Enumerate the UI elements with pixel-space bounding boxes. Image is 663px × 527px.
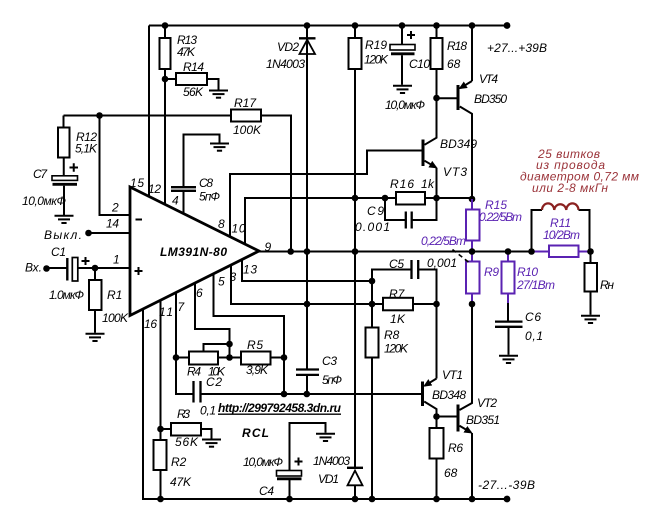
node rail/VD2 (304, 22, 311, 29)
wire R10 to C6 (507, 303, 509, 321)
svg-text:15: 15 (130, 176, 144, 190)
wire R5 right lead (271, 357, 285, 359)
link underline (218, 413, 341, 415)
resistor R3 (171, 423, 201, 436)
transistor VT2 collector (460, 304, 473, 410)
wire VT2 emitter to rail (471, 433, 473, 499)
svg-text:VT1: VT1 (442, 368, 463, 382)
svg-text:R14: R14 (183, 60, 204, 74)
wire R14 right lead to ground (207, 79, 219, 90)
node rail bottom/C4 (286, 496, 293, 503)
node junction R16 right/C9/VT3 emitter (433, 195, 440, 202)
wire pin 5 path (214, 274, 285, 394)
capacitor C7 (52, 176, 78, 185)
resistor R5 (241, 352, 271, 365)
svg-text:11: 11 (159, 305, 173, 319)
wire VD2 vertical from rail down to C3 (306, 26, 308, 370)
wire C10 bottom to ground (401, 55, 403, 85)
node junction pin13/C5/R7 (369, 278, 376, 285)
wire R8 bottom to rail (371, 358, 373, 500)
svg-text:R19: R19 (365, 38, 387, 52)
svg-text:47K: 47K (177, 45, 196, 59)
wire R19 bottom long vertical down to VD1 (354, 69, 356, 468)
wire Rн top lead (590, 252, 592, 264)
node junction R5/pin5 wire (281, 354, 288, 361)
resistor R18 (431, 38, 443, 69)
resistor R10 (502, 262, 515, 294)
wire R13 top lead from rail (164, 26, 166, 39)
wire R12 bottom to C7 (63, 158, 65, 176)
wire R3 left lead (161, 428, 172, 430)
ground R3 (202, 440, 221, 447)
wire C2 right to VT1 base (201, 393, 422, 395)
wire R1 bottom to ground (94, 310, 96, 333)
wire R18 bottom lead (436, 69, 438, 98)
inductor L1 coil 25 витков (542, 203, 579, 210)
ground R1 (86, 334, 105, 341)
transistor VT3 collector (425, 98, 437, 145)
svg-text:5: 5 (218, 275, 225, 289)
node junction VT4 collector/R15 (469, 196, 476, 203)
transistor VT1 base bar (421, 382, 424, 407)
transistor VT3 emitter arrow (425, 161, 436, 168)
svg-text:R5: R5 (247, 338, 263, 352)
resistor R14 (176, 73, 207, 85)
wire pin 15 vertical from rail to op-amp (148, 26, 150, 197)
svg-text:5,1K: 5,1K (75, 142, 98, 156)
svg-text:0.001: 0.001 (355, 220, 390, 234)
svg-text:120K: 120K (364, 53, 389, 67)
svg-text:C9: C9 (367, 204, 384, 218)
svg-text:10: 10 (232, 222, 246, 236)
wire C8 top to ground (184, 135, 220, 188)
node junction R16 left/C9 (382, 195, 389, 202)
node rail bottom/R8 (369, 496, 376, 503)
node rail/VT4 emitter (469, 22, 476, 29)
wire pin 2 L from op-amp up to node (100, 116, 131, 216)
svg-text:2: 2 (111, 201, 119, 215)
wire inductor right lead (579, 210, 590, 252)
svg-text:C2: C2 (206, 375, 222, 389)
svg-text:27/1Вт: 27/1Вт (516, 278, 555, 292)
svg-text:http://299792458.3dn.ru: http://299792458.3dn.ru (218, 401, 342, 415)
wire R14 left lead (165, 78, 176, 80)
svg-text:4: 4 (172, 194, 179, 208)
transistor VT3 base bar (422, 140, 425, 167)
wire R18 top lead (436, 26, 438, 39)
svg-text:BD348: BD348 (432, 388, 466, 402)
resistor R6 top lead (436, 417, 438, 429)
node output/R19 line (352, 248, 359, 255)
terminal Выкл node (85, 230, 92, 237)
svg-text:47K: 47K (170, 475, 192, 489)
resistor R10 top lead (507, 252, 509, 262)
transistor VT1 collector (424, 402, 436, 417)
wire C5 right lead (418, 270, 436, 305)
wire VT3 emitter down to R16 row (436, 168, 438, 198)
svg-text:LM391N-80: LM391N-80 (160, 245, 227, 259)
resistor R2 (154, 440, 167, 470)
terminal Вх node (43, 265, 50, 272)
wire pin 4 to C8 (183, 191, 185, 214)
svg-text:R10: R10 (517, 265, 538, 279)
transistor VT4 base bar (457, 85, 460, 110)
transistor VT4 emitter arrow (460, 81, 472, 88)
resistor R17 (231, 110, 261, 122)
svg-text:5пФ: 5пФ (199, 190, 220, 204)
node junction pin1/R1/C1 (92, 265, 99, 272)
node junction pin5/C2 wire (281, 391, 288, 398)
diode VD1 (347, 468, 363, 486)
ground Rн (581, 316, 600, 323)
svg-text:R17: R17 (234, 96, 257, 110)
svg-text:Rн: Rн (600, 278, 614, 292)
resistor Rн (585, 263, 598, 292)
node output/L right/Rн (587, 248, 594, 255)
resistor R19 (349, 38, 362, 69)
svg-text:10,0мкФ: 10,0мкФ (385, 98, 425, 112)
resistor R8 (366, 328, 379, 358)
resistor R12 (58, 128, 70, 158)
op-amp minus sign (136, 219, 143, 221)
svg-text:C7: C7 (33, 167, 48, 181)
svg-text:R1: R1 (107, 288, 122, 302)
svg-text:10,0мкФ: 10,0мкФ (243, 455, 283, 469)
svg-text:1: 1 (113, 253, 120, 267)
resistor R15 (466, 210, 480, 241)
svg-text:68: 68 (444, 466, 458, 480)
capacitor C4 plus sign (295, 458, 303, 466)
svg-text:BD350: BD350 (474, 92, 507, 106)
svg-text:68: 68 (447, 57, 461, 71)
wire pin 11 down to R3/R2 (160, 300, 162, 429)
wire R2 bottom lead to rail (160, 470, 162, 499)
svg-text:BD349: BD349 (440, 137, 477, 151)
svg-text:C6: C6 (525, 310, 541, 324)
ground C7 (55, 216, 74, 223)
resistor R15 top lead (471, 199, 473, 210)
svg-text:0,1: 0,1 (200, 404, 216, 418)
wire R13 bottom to pin 12 (164, 69, 166, 204)
transistor VT4 collector (460, 107, 472, 200)
resistor R9 (466, 262, 480, 294)
svg-text:Вх.: Вх. (25, 261, 42, 275)
svg-text:VD2: VD2 (277, 40, 299, 54)
wire pin 7 path to C2 (176, 293, 193, 394)
ground C6 (499, 356, 518, 363)
node junction R7 left/R8 (369, 301, 376, 308)
capacitor C7 plus sign (70, 163, 79, 172)
svg-text:1.0мкФ: 1.0мкФ (49, 288, 84, 302)
dashed leader to R9 (453, 250, 470, 263)
node output/R17 (287, 248, 294, 255)
wire pin2 node horizontal (R12 top to R17 left) (64, 115, 232, 117)
transistor VT1 emitter arrow (425, 379, 437, 386)
wire R12 top lead (63, 116, 65, 128)
op-amp U1 LM391N-80 triangle (130, 187, 259, 316)
node junction R4/R5 (226, 354, 233, 361)
svg-text:R16: R16 (390, 177, 414, 191)
capacitor C5 (412, 260, 419, 279)
svg-text:5пФ: 5пФ (322, 373, 342, 387)
svg-text:12: 12 (148, 182, 161, 196)
wire R2 top lead (160, 429, 162, 440)
svg-text:C5: C5 (389, 257, 404, 271)
resistor R11 (549, 246, 579, 258)
svg-text:C1: C1 (51, 245, 66, 259)
wire Rн bottom to ground (590, 292, 592, 315)
svg-text:0.22/5Вт: 0.22/5Вт (479, 210, 522, 224)
node output/R15/R9 (469, 248, 476, 255)
svg-text:1K: 1K (390, 312, 406, 326)
node output/L left (528, 248, 535, 255)
capacitor C9 right lead (412, 198, 437, 220)
svg-text:VT4: VT4 (479, 72, 498, 86)
node output/R10 (505, 248, 512, 255)
node junction R19 line/R16 row (352, 195, 359, 202)
wire C1 left to Вх terminal (48, 267, 68, 269)
capacitor C1 (67, 258, 78, 282)
svg-text:VT3: VT3 (443, 165, 467, 179)
capacitor C4 (277, 471, 302, 479)
svg-text:3,9K: 3,9K (246, 363, 269, 377)
node junction R18/VT3 collector/VT4 base (433, 95, 440, 102)
wire R5 left lead (230, 357, 242, 359)
wire top positive rail (149, 25, 507, 27)
node junction C3/C2 wire (304, 391, 311, 398)
svg-text:8: 8 (218, 217, 225, 231)
resistor R9 bottom lead (471, 294, 473, 305)
wire C5 left lead down through pin13/pin3 nodes to R8 (372, 270, 412, 328)
svg-text:0,001: 0,001 (427, 256, 457, 270)
svg-text:9: 9 (265, 240, 272, 254)
svg-text:C8: C8 (199, 176, 213, 190)
wire pin 16 and bottom negative rail (143, 309, 507, 499)
node junction pin6 arm (226, 341, 233, 348)
node junction pin2/R12/R17 (96, 112, 103, 119)
node junction pin11/R3/R2 (157, 426, 164, 433)
wire VD1 bottom to rail (354, 485, 356, 499)
node rail bottom right end (504, 496, 511, 503)
wire R4 right lead (218, 357, 230, 359)
resistor R11 left lead (532, 251, 550, 253)
wire pin 13 row (242, 260, 372, 282)
transistor VT2 base bar (457, 405, 460, 432)
svg-text:BD351: BD351 (466, 413, 500, 427)
svg-text:14: 14 (106, 217, 119, 231)
wire R4 trimmer arm (204, 344, 230, 352)
wire C3 bottom lead (306, 375, 308, 394)
node rail/R13 (162, 22, 169, 29)
node rail/R18 (433, 22, 440, 29)
svg-text:13: 13 (243, 263, 257, 277)
node rail right end (504, 22, 511, 29)
svg-text:1N4003: 1N4003 (313, 454, 350, 468)
wire pin 1 from C1 to op-amp (78, 267, 131, 269)
svg-text:-27...-39В: -27...-39В (478, 478, 535, 492)
wire R7 right lead (413, 303, 437, 305)
resistor R10 bottom lead (507, 294, 509, 304)
resistor R9 top lead (471, 252, 473, 262)
capacitor C8 (171, 187, 196, 191)
wire VT1 emitter vertical (436, 304, 438, 379)
ground R14 (209, 91, 228, 98)
wire R3 right lead to ground (201, 429, 212, 439)
wire R19 top lead (354, 26, 356, 39)
wire R6 bottom to rail (436, 459, 438, 500)
svg-text:R6: R6 (448, 441, 463, 455)
resistor R11 right lead (579, 251, 591, 253)
capacitor C3 (296, 370, 319, 375)
transistor VT2 emitter arrow (460, 426, 472, 433)
node rail/R19 (352, 22, 359, 29)
svg-text:R9: R9 (484, 265, 499, 279)
wire C6 bottom to ground (508, 327, 510, 355)
resistor R4 (189, 352, 218, 365)
diode VD2 (299, 38, 316, 54)
node rail bottom/R2 (157, 496, 164, 503)
svg-text:R2: R2 (171, 455, 187, 469)
node junction R13/R14 (162, 76, 169, 83)
svg-text:1k: 1k (421, 177, 435, 191)
node rail bottom/R6 (433, 496, 440, 503)
capacitor C1 plus sign (82, 257, 90, 265)
capacitor C10 (390, 45, 415, 54)
node rail/C10 (399, 22, 406, 29)
svg-text:или 2-8 мкГн: или 2-8 мкГн (532, 181, 608, 195)
node junction VT1 collector/R6/VT2 base (433, 413, 440, 420)
capacitor C2 (194, 381, 201, 403)
capacitor C9 (406, 212, 412, 229)
svg-text:10,0мкФ: 10,0мкФ (22, 194, 66, 208)
svg-text:C10: C10 (409, 57, 430, 71)
svg-text:R8: R8 (384, 328, 400, 342)
capacitor C10 plus sign (407, 31, 415, 39)
op-amp plus sign (135, 267, 143, 275)
wire R17 right lead down to output (261, 116, 291, 252)
svg-text:0,22/5Вт: 0,22/5Вт (421, 234, 466, 248)
svg-text:120K: 120K (384, 342, 409, 356)
resistor R1 (89, 280, 102, 310)
node junction R9 bottom/pin3 row (469, 301, 476, 308)
wire pin 8 to VT3 base (230, 151, 422, 237)
svg-text:1N4003: 1N4003 (266, 57, 305, 71)
svg-text:R18: R18 (447, 39, 467, 53)
svg-text:56K: 56K (175, 435, 199, 449)
resistor R16 (396, 192, 425, 205)
resistor R13 (160, 38, 171, 69)
wire C4 bottom to rail (289, 480, 291, 500)
svg-text:VT2: VT2 (477, 396, 497, 410)
svg-text:R3: R3 (177, 407, 190, 421)
svg-text:C3: C3 (322, 354, 337, 368)
svg-text:3: 3 (230, 270, 237, 284)
wire pin 10 and R16 row (245, 198, 472, 244)
wire VT4 base (437, 97, 457, 99)
wire pin 14 to Выкл terminal (90, 232, 130, 234)
node rail bottom/VD1 (352, 496, 359, 503)
svg-text:100K: 100K (233, 123, 262, 137)
svg-text:R4: R4 (187, 365, 201, 379)
wire pin 3 row (231, 265, 383, 304)
svg-text:VD1: VD1 (318, 472, 339, 486)
node rail bottom/VT2 emitter (469, 496, 476, 503)
resistor R6 (430, 428, 444, 459)
node junction VD2 line/pin3 row (304, 301, 311, 308)
wire R4 left lead (176, 357, 189, 359)
wire pin 6 path (195, 283, 230, 357)
resistor R15 bottom lead (471, 241, 473, 252)
svg-text:10/2Вт: 10/2Вт (543, 228, 580, 242)
capacitor C9 left lead (385, 198, 406, 220)
svg-text:0,1: 0,1 (525, 329, 543, 343)
node junction pin7/R4 (173, 354, 180, 361)
svg-text:56K: 56K (183, 85, 204, 99)
wire C10 top lead (401, 26, 403, 45)
wire C4 top to RCL ground (290, 423, 326, 471)
svg-text:+27...+39В: +27...+39В (487, 41, 547, 55)
wire R1 top lead (94, 268, 96, 280)
capacitor C6 (495, 322, 523, 327)
svg-text:6: 6 (196, 286, 203, 300)
wire VT2 base (437, 416, 457, 418)
ground RCL (316, 434, 335, 441)
wire output row pin 9 (259, 251, 532, 253)
svg-text:Выкл.: Выкл. (44, 228, 82, 242)
node output/VD2 line (304, 248, 311, 255)
resistor R7 (383, 298, 413, 311)
node junction R7 right/C5/VT1 (433, 301, 440, 308)
svg-text:C4: C4 (259, 484, 274, 498)
svg-text:100K: 100K (102, 311, 129, 325)
svg-text:RCL: RCL (242, 426, 269, 440)
ground C8 (210, 144, 229, 151)
wire C7 bottom to ground (63, 186, 65, 215)
wire VT4 emitter from rail (471, 26, 473, 82)
svg-text:16: 16 (144, 317, 157, 331)
ground C10 (393, 86, 412, 93)
wire inductor left lead (532, 210, 543, 252)
svg-text:R7: R7 (389, 287, 406, 301)
